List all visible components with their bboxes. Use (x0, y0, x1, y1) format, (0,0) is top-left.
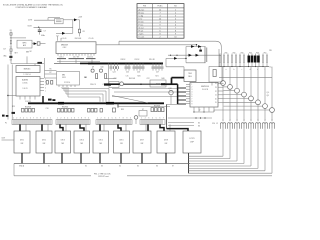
svg-text:ALARM: ALARM (22, 79, 28, 82)
svg-text:K7: K7 (172, 165, 174, 167)
clock chip U1 (190, 83, 218, 108)
capacitor C8 (78, 29, 80, 33)
svg-text:R36-R39: R36-R39 (154, 105, 160, 107)
svg-text:7805: 7805 (188, 73, 192, 75)
wire (60, 38, 62, 41)
svg-text:DISP: DISP (190, 142, 194, 144)
return fan wires (189, 156, 273, 173)
svg-text:DIS 1: DIS 1 (20, 140, 24, 142)
svg-text:R45 10K: R45 10K (129, 78, 136, 80)
wire (10, 31, 12, 63)
emitter drops to sockets (223, 85, 272, 121)
wire (211, 82, 213, 86)
switch contact (10, 43, 11, 44)
wire (177, 57, 186, 59)
base feed wires (214, 87, 270, 112)
nested wires (62, 88, 109, 90)
alarm box upper (16, 66, 40, 73)
wire under table long (119, 40, 216, 42)
resistor cluster B (58, 108, 75, 112)
wire long 2 (114, 91, 178, 93)
display DIS1 (14, 131, 30, 153)
bold elbow to display 9 (167, 129, 189, 131)
svg-text:NIX: NIX (81, 143, 84, 145)
alarm box lower (16, 77, 40, 97)
wire (168, 122, 194, 124)
left column parts (9, 30, 12, 64)
wire (165, 58, 167, 66)
svg-text:MM5316: MM5316 (24, 68, 31, 70)
bold clock feed 2 (164, 83, 178, 85)
bridge mid rail (168, 54, 221, 56)
wire (34, 26, 73, 28)
svg-text:A13: A13 (23, 44, 26, 47)
svg-text:C7x: C7x (126, 75, 129, 77)
svg-text:B 7971: B 7971 (189, 138, 194, 140)
svg-text:1 2 3 4 5 6 7 8 9 0: 1 2 3 4 5 6 7 8 9 0 (97, 117, 131, 119)
resistor stubs (220, 54, 267, 67)
svg-text:9 10 11: 9 10 11 (23, 88, 28, 90)
wire stub (47, 18, 49, 21)
svg-text:22: 22 (215, 91, 217, 93)
diode blob (2, 115, 5, 117)
svg-text:Q1-: Q1- (267, 92, 270, 94)
wire (217, 82, 219, 86)
diode D5 (174, 57, 177, 60)
U1 pin numbers right (215, 83, 217, 104)
diode D1 (74, 18, 77, 21)
svg-text:24: 24 (215, 83, 217, 85)
svg-text:DIS 5: DIS 5 (99, 140, 103, 142)
svg-text:K1: K1 (48, 165, 50, 167)
resistor cluster A (22, 108, 35, 112)
U1 bottom pins (194, 107, 214, 112)
svg-text:C8: C8 (82, 31, 84, 33)
box B right pins (40, 79, 44, 91)
bold pin stubs (178, 88, 186, 104)
wire (124, 83, 164, 85)
svg-text:FIG. 2 THE CLOCK: FIG. 2 THE CLOCK (94, 173, 111, 175)
bus dots (224, 66, 264, 67)
oscillator box IC3 (17, 40, 32, 48)
lower mid parts (109, 82, 119, 88)
svg-text:J2: J2 (216, 123, 218, 125)
bold drop display9 (188, 153, 190, 173)
U1 pin numbers left (192, 84, 193, 105)
wire (40, 43, 46, 45)
node (200, 117, 201, 118)
tall box IC2 left (57, 72, 80, 86)
svg-text:NIX: NIX (100, 143, 103, 145)
bold elbow wires strip to displays (20, 124, 164, 131)
wire (72, 20, 74, 34)
svg-text:Q10: Q10 (100, 67, 103, 69)
svg-text:S1 B: S1 B (27, 26, 32, 28)
resistor R14 (96, 74, 98, 79)
node (196, 44, 197, 45)
transistor Q2 (228, 85, 233, 90)
svg-text:NIX: NIX (141, 143, 144, 145)
ground bus 1 (14, 163, 190, 165)
wire (79, 33, 81, 37)
anode resistors dark (248, 56, 260, 63)
resistor cluster C (88, 108, 98, 112)
driver column wires from bus (223, 67, 272, 108)
svg-text:FUNC: FUNC (158, 6, 164, 8)
svg-text:K com: K com (139, 36, 145, 38)
svg-text:C16: C16 (46, 108, 49, 110)
svg-text:B+: B+ (270, 66, 272, 68)
svg-text:NIX: NIX (62, 143, 65, 145)
svg-text:K6: K6 (156, 165, 158, 167)
parts table (137, 4, 184, 39)
wire (183, 67, 185, 70)
display DIS9 (183, 131, 201, 153)
svg-text:DIS 3: DIS 3 (61, 140, 65, 142)
svg-text:1 2 3 4 5 6: 1 2 3 4 5 6 (23, 74, 30, 76)
svg-text:C4 .01: C4 .01 (62, 38, 67, 40)
node (185, 58, 186, 59)
box (150, 80, 166, 87)
svg-text:K2: K2 (85, 165, 87, 167)
bold feed wire (172, 77, 185, 79)
wire drop (117, 103, 119, 107)
cap lower stubs (111, 69, 162, 71)
wire (200, 47, 202, 50)
svg-text:R10 1K: R10 1K (149, 59, 156, 61)
svg-text:60Hz: 60Hz (41, 35, 45, 37)
svg-text:K3: K3 (101, 165, 103, 167)
wire (166, 66, 184, 68)
svg-text:1 2 3 4: 1 2 3 4 (59, 56, 64, 58)
main bus bold (80, 62, 162, 64)
wire step (118, 41, 120, 45)
svg-text:H set: H set (139, 29, 144, 32)
svg-text:S2: S2 (29, 51, 31, 53)
wire heater line (219, 76, 272, 78)
U1 left pins (186, 84, 190, 103)
transistor Q8 (270, 108, 275, 113)
connector strip 1 (12, 120, 52, 125)
svg-text:5 6 7 8 9: 5 6 7 8 9 (73, 56, 79, 58)
wire long 1 (112, 88, 178, 90)
ground bus 2 left (14, 175, 91, 177)
svg-text:P1: P1 (5, 122, 7, 124)
wire (32, 43, 34, 45)
svg-text:1 2 3 4 5 6 7 8 9 0: 1 2 3 4 5 6 7 8 9 0 (57, 117, 89, 119)
bus segment (86, 57, 96, 60)
svg-text:C22: C22 (147, 78, 150, 80)
svg-text:117V: 117V (28, 19, 33, 21)
resistor R22 (46, 81, 48, 85)
svg-text:S7: S7 (142, 109, 144, 111)
U1 right pins (218, 83, 224, 102)
transistor Q11 (120, 82, 124, 86)
svg-text:1 2 3 4 5 6 7: 1 2 3 4 5 6 7 (141, 117, 164, 119)
resistor R1 (10, 33, 12, 36)
capacitor bar row (110, 66, 163, 69)
svg-text:SET: SET (14, 52, 17, 54)
wire (91, 60, 93, 64)
resistor R15 (105, 74, 107, 79)
svg-text:R26-R29: R26-R29 (25, 107, 31, 109)
svg-text:SOLID-STATE DIGITAL ALARM CLOC: SOLID-STATE DIGITAL ALARM CLOCK USING TH… (3, 4, 64, 7)
node (176, 55, 177, 56)
svg-text:C27: C27 (156, 72, 159, 74)
svg-text:NIX: NIX (43, 143, 46, 145)
transistor Q4 (242, 92, 247, 97)
svg-text:R21: R21 (156, 75, 159, 77)
svg-text:19: 19 (215, 102, 217, 104)
svg-text:Q12: Q12 (168, 88, 171, 90)
diagonal wire (112, 96, 148, 104)
svg-text:R6 100K: R6 100K (75, 38, 82, 40)
wire (75, 60, 77, 64)
bus segment (69, 57, 85, 60)
svg-text:R20: R20 (138, 75, 141, 77)
bus extra dark segment (88, 63, 163, 65)
wire (108, 63, 110, 84)
wire (185, 47, 187, 63)
svg-text:G out: G out (139, 26, 144, 29)
left verticals (7, 65, 9, 120)
wire ac pair (218, 49, 220, 67)
capacitor C19 (113, 108, 116, 112)
connector strip 2 (56, 120, 90, 125)
transistor Q9 (91, 69, 94, 72)
ground bus 2 right (127, 175, 272, 177)
transformer core T1 (204, 47, 206, 63)
svg-text:R5: R5 (50, 69, 52, 71)
svg-text:12: 12 (199, 110, 201, 112)
svg-text:E min: E min (139, 21, 144, 23)
bold clock feed (104, 83, 120, 85)
bus end dot (161, 62, 163, 64)
svg-text:DIS 8: DIS 8 (164, 140, 168, 142)
crystal Y1 (38, 27, 42, 34)
wire (106, 78, 116, 80)
display DIS4 (74, 131, 90, 153)
wire mid feed (119, 44, 197, 46)
wire (170, 95, 172, 105)
diode D9 (196, 54, 199, 57)
wire long 4 (118, 106, 170, 108)
svg-text:B seg: B seg (139, 12, 144, 14)
svg-text:R25: R25 (12, 106, 15, 108)
display DIS5 (93, 131, 109, 153)
svg-text:R46: R46 (162, 78, 165, 80)
svg-text:NIX: NIX (120, 143, 123, 145)
wire long 3 (112, 96, 178, 98)
transformer box T1 (209, 67, 222, 83)
svg-text:C7: C7 (43, 31, 45, 33)
svg-text:DIS 2: DIS 2 (42, 140, 46, 142)
dark blob cluster 2 (52, 99, 55, 101)
bold wire from box B (42, 96, 44, 103)
transistor Q1 (221, 81, 226, 86)
diode D2 (62, 32, 65, 35)
svg-text:CIRCUIT cont.: CIRCUIT cont. (98, 175, 109, 178)
wire left edge down (166, 104, 168, 128)
bold feed wire (171, 78, 173, 85)
wire (45, 77, 57, 79)
IC2 pins bottom (59, 85, 75, 87)
wire (8, 95, 16, 97)
svg-text:F sec: F sec (139, 24, 144, 26)
socket loops row (220, 123, 274, 129)
transistor Q6 (256, 100, 261, 105)
capacitor C13 (51, 81, 53, 85)
transistor Q10 (99, 69, 102, 72)
svg-text:R16 C9: R16 C9 (90, 84, 96, 86)
socket pin labels (223, 119, 273, 121)
wire (34, 19, 55, 21)
svg-text:COMPLETE SCHEMATIC DIAGRAM: COMPLETE SCHEMATIC DIAGRAM (15, 6, 47, 9)
resistor top marks (220, 54, 268, 56)
bold pin rail (177, 84, 179, 104)
switch contact (10, 40, 11, 41)
display DIS3 (55, 131, 71, 153)
wire (65, 32, 72, 34)
display DIS6 (114, 131, 130, 153)
transistor Q12 (169, 90, 173, 94)
transistor Q7 (263, 104, 268, 109)
node (7, 95, 8, 96)
svg-text:C24: C24 (113, 72, 116, 74)
wire (45, 69, 57, 71)
svg-text:5311: 5311 (62, 77, 66, 79)
svg-text:C dig: C dig (139, 15, 144, 17)
svg-text:MM5314: MM5314 (201, 86, 210, 88)
svg-text:S5: S5 (198, 123, 200, 125)
wire (48, 17, 60, 19)
display DIS8 (157, 131, 175, 153)
svg-text:10 11 12: 10 11 12 (87, 56, 93, 58)
wire corner to psu (216, 41, 222, 47)
svg-text:117: 117 (3, 49, 6, 51)
display DIS2 (36, 131, 52, 153)
counter IC1 (56, 42, 96, 54)
bus blob (106, 102, 114, 105)
transistor Q5 (249, 96, 254, 101)
svg-text:NIX: NIX (21, 143, 24, 145)
wire (56, 32, 62, 34)
wire (63, 19, 74, 21)
wire (79, 20, 81, 29)
bridge bottom rail (186, 62, 206, 64)
wire (57, 36, 59, 41)
bus blob (58, 102, 64, 105)
wire (194, 111, 214, 113)
wire (45, 73, 57, 75)
diode blob (12, 112, 16, 114)
wire (2, 139, 15, 141)
wire IC1 out right (96, 44, 119, 46)
svg-text:DIS 7: DIS 7 (140, 140, 144, 142)
svg-text:21: 21 (215, 95, 217, 97)
capacitor C1 (10, 49, 12, 52)
regulator IC4 (184, 70, 196, 82)
dark corner blob (104, 84, 111, 86)
anode resistors light (220, 56, 268, 63)
diode D8 (189, 54, 192, 57)
resistor R4 (37, 62, 42, 64)
node (195, 117, 196, 118)
wire (59, 60, 61, 64)
bus segment (57, 57, 66, 60)
diode blob psu (199, 50, 202, 52)
resistor R12 (213, 70, 216, 77)
display DIS7 (133, 131, 151, 153)
dark blob cluster (48, 99, 52, 101)
anode bus (219, 66, 270, 68)
node (193, 111, 194, 112)
svg-text:C5 .05: C5 .05 (89, 38, 94, 40)
wire (196, 45, 198, 47)
switch box S7 (139, 111, 147, 117)
svg-text:DIS 4: DIS 4 (80, 140, 84, 142)
filter box FL1 (55, 19, 64, 24)
node (203, 111, 204, 112)
capacitor C18 (100, 108, 103, 112)
svg-text:20: 20 (215, 98, 217, 100)
wire upper bus (57, 61, 100, 63)
wire (166, 57, 174, 59)
wires x44 column (44, 58, 46, 78)
lamp I1 (134, 116, 138, 120)
IC1 pins (58, 54, 94, 56)
diode D3 (9, 56, 12, 58)
svg-text:C25: C25 (126, 72, 129, 74)
wire (11, 63, 44, 65)
svg-text:12 13 14: 12 13 14 (64, 82, 70, 84)
svg-text:Q9: Q9 (92, 67, 94, 69)
wire (168, 125, 194, 127)
diode D4 (34, 42, 37, 45)
svg-text:C26: C26 (137, 72, 140, 74)
svg-text:K4: K4 (119, 165, 121, 167)
svg-text:23: 23 (215, 87, 217, 89)
svg-text:CLOCK: CLOCK (202, 89, 209, 91)
wires strip to displays (26, 124, 170, 131)
wire (167, 103, 178, 105)
below bus labels (226, 69, 266, 71)
connector strip 4 (140, 120, 165, 125)
wire (34, 64, 36, 66)
transistor Q3 (235, 88, 240, 93)
svg-text:C21: C21 (114, 78, 117, 80)
node junction (38, 27, 39, 28)
svg-text:LOGIC: LOGIC (23, 83, 29, 85)
svg-text:K5: K5 (137, 165, 139, 167)
wire (26, 56, 28, 63)
svg-text:D hr: D hr (139, 18, 143, 20)
junction blob (161, 83, 165, 85)
wire bus light part (54, 62, 80, 64)
diode D7 (198, 45, 201, 48)
svg-text:R30-R34: R30-R34 (62, 107, 68, 109)
connector strip 3 (96, 120, 132, 125)
svg-text:Q8: Q8 (267, 95, 269, 97)
diode D6 (191, 45, 194, 48)
socket return drops (223, 129, 272, 174)
node (204, 117, 205, 118)
svg-text:R35: R35 (121, 109, 124, 111)
svg-text:S6: S6 (198, 126, 200, 128)
capacitor C2 (37, 42, 40, 45)
display cathode drops (22, 153, 166, 164)
svg-text:NIX: NIX (165, 143, 168, 145)
